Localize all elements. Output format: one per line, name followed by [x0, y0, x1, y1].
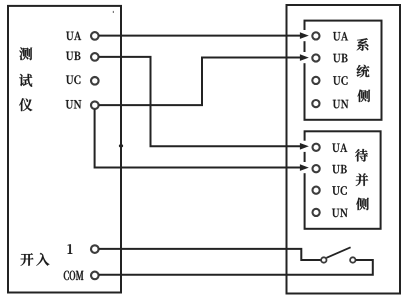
box: test instrument 测试仪 outline — [8, 6, 121, 293]
arrow into system UA — [300, 33, 308, 39]
label UN (tester) — [66, 100, 82, 108]
terminal 1 (binary input) — [91, 245, 99, 253]
terminal COM (binary common) — [91, 272, 99, 280]
label UN (system side) — [333, 100, 349, 108]
label COM (binary common) — [64, 271, 84, 280]
terminal UN (tester) — [91, 101, 99, 109]
terminal UB (tester) — [91, 53, 99, 61]
label 试 (tester char 2) — [19, 74, 32, 87]
terminal UC (tester) — [91, 77, 99, 85]
wire binary input 1 to switch — [99, 249, 321, 260]
label 侧 (system side char 3) — [358, 90, 371, 102]
wire tester UN to standby UB (down-right) — [95, 109, 301, 167]
label 侧 (standby side char 3) — [356, 198, 369, 210]
box: standby side 待并侧 — [305, 131, 381, 229]
terminal UN (system side) — [312, 100, 319, 107]
wire switch to binary COM — [99, 260, 373, 275]
terminal UC (standby side) — [313, 187, 320, 194]
gap in standby box edge at UB arrow — [303, 162, 306, 173]
label UB (tester) — [66, 52, 80, 60]
terminal UN (standby side) — [313, 209, 320, 216]
label UC (system side) — [333, 76, 347, 85]
arrow into standby UB — [300, 165, 308, 171]
gap in standby box edge at UA arrow — [303, 141, 306, 152]
terminal UA (standby side) — [313, 144, 320, 151]
terminal UB (system side) — [312, 54, 319, 61]
gap in system box edge at UB arrow — [303, 52, 306, 63]
label 测 (tester char 1) — [19, 48, 32, 61]
label UA (standby side) — [332, 144, 347, 152]
box: protected device outline — [287, 5, 401, 294]
label 并 (standby side char 2) — [356, 173, 368, 186]
label UN (standby side) — [332, 209, 348, 217]
terminal UA (tester) — [91, 32, 99, 40]
label 待 (standby side char 1) — [355, 149, 368, 162]
label UB (system side) — [333, 54, 347, 62]
arrow into standby UA — [300, 143, 308, 149]
label UA (system side) — [333, 32, 348, 40]
label UB (standby side) — [332, 165, 346, 173]
label UC (standby side) — [332, 186, 346, 195]
wire tester UB to standby UA (right-down-right) — [99, 57, 301, 146]
label 仪 (tester char 3) — [19, 98, 32, 111]
terminal UC (system side) — [312, 77, 319, 84]
wire tester UA to system UA — [99, 35, 301, 37]
label 统 (system side char 2) — [357, 65, 370, 78]
switch right contact — [350, 257, 355, 262]
label 1 (binary input 1) — [68, 244, 73, 253]
terminal UB (standby side) — [313, 165, 320, 172]
gap in system box edge at UA arrow — [303, 30, 306, 41]
switch left contact — [321, 257, 326, 262]
label 开入 (binary input) — [21, 253, 50, 266]
junction dot on tester box edge — [119, 145, 123, 148]
arrow into system UB — [300, 55, 308, 61]
terminal UA (system side) — [312, 32, 319, 39]
label UC (tester) — [66, 75, 80, 84]
switch blade — [327, 247, 351, 257]
box: system side 系统侧 — [305, 21, 382, 120]
label 系 (system side char 1) — [357, 38, 369, 51]
wire tester UN to system UB (right-up-right) — [99, 58, 301, 106]
label UA (tester) — [66, 32, 81, 40]
